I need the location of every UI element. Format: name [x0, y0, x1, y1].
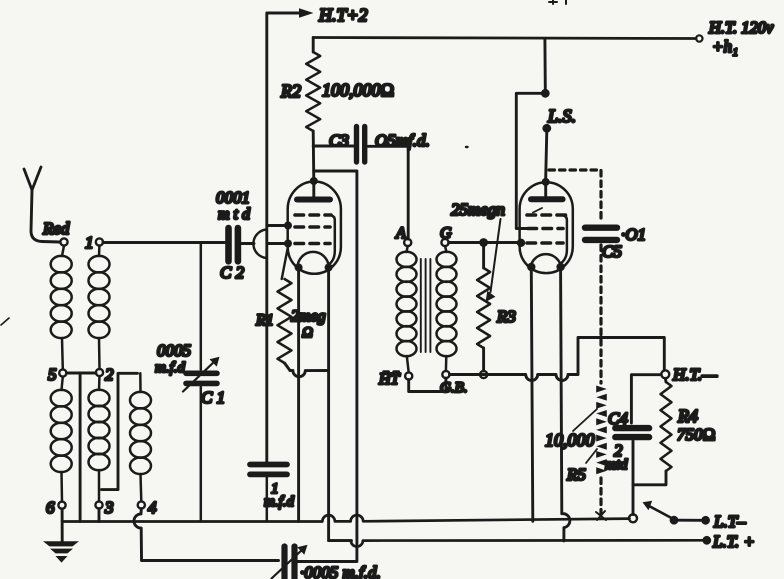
svg-text:6: 6	[46, 498, 55, 517]
V2 anode	[531, 196, 563, 202]
svg-text:H̄T̄: H̄T̄	[378, 371, 401, 388]
terminal 5	[48, 365, 66, 384]
svg-text:C5: C5	[602, 242, 622, 261]
coil L4 (2 to 3)	[89, 376, 110, 501]
wire V1 anode to reaction line (down right side)	[298, 171, 357, 562]
terminal 3	[95, 498, 113, 517]
terminal 1	[85, 233, 103, 252]
wire terminal1 to C2	[103, 241, 225, 244]
resistor R4 750 ohm	[633, 378, 716, 485]
node R3 top junction	[479, 238, 488, 247]
antenna aerial	[24, 167, 60, 242]
V1 control grid row	[295, 242, 330, 246]
ground (earth)	[43, 541, 79, 562]
svg-text:·O1: ·O1	[621, 225, 646, 244]
capacitor 1 mfd (screen bypass)	[250, 465, 295, 522]
capacitor C5 .01	[585, 225, 646, 261]
wire G to V2 grid	[449, 241, 517, 244]
wire junction 5/2 down to earth bus	[79, 373, 82, 522]
wire C2 to grid with hop over H.T+2 line	[242, 242, 255, 245]
svg-text:m.f.d: m.f.d	[155, 360, 186, 376]
svg-text:3: 3	[104, 498, 114, 517]
resistor R3 25 meg (grid leak, variable)	[451, 200, 516, 378]
svg-text:2: 2	[105, 365, 114, 384]
wire terminal5 to terminal2	[67, 372, 96, 375]
svg-text:C 2: C 2	[220, 263, 245, 282]
svg-text:Red: Red	[42, 219, 70, 238]
wire H.T+2 line to screen grid of V1	[267, 224, 284, 227]
svg-text:G: G	[440, 225, 452, 242]
resistor R2 100,000 ohm (anode load)	[280, 38, 394, 182]
wire 3 to earth bus	[98, 509, 101, 522]
node L.S. upper terminal	[541, 89, 550, 98]
svg-text:H.T.—: H.T.—	[672, 365, 718, 384]
svg-text:R5: R5	[566, 465, 586, 484]
coil L1 (aerial primary, Red to 5)	[51, 246, 72, 370]
valve V1 (detector)	[284, 177, 341, 274]
svg-text:O5mf.d.: O5mf.d.	[375, 131, 430, 150]
svg-text:L.S.: L.S.	[547, 106, 576, 126]
transformer secondary winding	[437, 246, 457, 371]
terminal G.B. (secondary bottom)	[440, 371, 468, 396]
transformer core	[421, 259, 431, 352]
resistor R1 2 meg (grid leak)	[255, 247, 326, 371]
dashed wire from L.S. lead	[549, 170, 601, 222]
svg-text:C3: C3	[329, 131, 349, 150]
svg-text:C 1: C 1	[201, 388, 225, 407]
terminal L.T.+	[702, 532, 754, 551]
svg-text:R1: R1	[255, 312, 274, 329]
V1 filament lead left to earth bus	[297, 271, 300, 522]
reaction winding feed wire (to top of L5)	[102, 373, 138, 489]
svg-text:+h₁: +h₁	[712, 37, 738, 56]
coil L3 (5 to 6)	[51, 377, 72, 502]
wire H.T.- node to C4	[631, 375, 661, 423]
wire HT to G.B. link	[409, 378, 446, 391]
svg-text:A: A	[395, 225, 406, 242]
svg-text:H.T+2: H.T+2	[318, 5, 368, 25]
capacitor C3 05 mfd (coupling)	[313, 127, 430, 240]
wire 6 to earth	[61, 509, 64, 541]
dashed wire R5 to earth bus	[599, 478, 602, 514]
filament switch	[643, 501, 702, 525]
L.T.+ BUS with dip under reaction lead	[329, 540, 703, 546]
R1 bottom wire with hop over left filament lead	[290, 371, 329, 377]
terminal HT (primary bottom)	[378, 371, 412, 388]
svg-text:R4: R4	[677, 406, 698, 426]
wire C4 bottom to switch node	[632, 441, 635, 515]
terminal 2	[96, 365, 114, 384]
wire node to V2 screen grid	[516, 93, 545, 228]
V1 anode	[297, 197, 330, 203]
svg-text:0001: 0001	[216, 188, 250, 207]
V2 control grid row	[527, 241, 563, 245]
H.T+2 feed line (screen supply)	[267, 5, 368, 462]
V2 filament lead right, hop over earth bus, to L.T.+ bus	[561, 271, 570, 541]
svg-text:Ω: Ω	[302, 325, 313, 341]
svg-text:L.T. +: L.T. +	[712, 532, 755, 551]
svg-text:R3: R3	[496, 307, 516, 326]
V1 grid row 1	[295, 213, 331, 217]
svg-text:m.f.d: m.f.d	[264, 494, 295, 510]
svg-text:m t d: m t d	[218, 206, 251, 223]
reaction capacitor -0005 mfd (variable)	[272, 545, 381, 579]
resistor R5 10,000 (dashed, variable)	[545, 386, 607, 485]
coil L5 (reaction winding, to 4)	[130, 373, 151, 501]
terminal L.T.-	[701, 512, 746, 531]
stray printing marks	[1, 318, 9, 325]
wire bus down to L.S. node	[543, 39, 546, 90]
capacitor C1 0005 m.f.d variable (tuning)	[155, 243, 225, 522]
terminal A	[395, 225, 411, 246]
terminal L.S. lower (to V2 anode)	[542, 106, 576, 178]
terminal 4	[138, 498, 157, 517]
svg-text:0005: 0005	[157, 341, 191, 360]
svg-text:750Ω: 750Ω	[677, 425, 716, 444]
svg-text:R2: R2	[280, 81, 301, 101]
coil L2 (secondary, 1 to 2)	[89, 246, 110, 369]
V2 grid row 1	[527, 213, 566, 217]
EARTH / L.T.- BUS with hops	[62, 515, 629, 521]
H.T. 120v SUPPLY BUS	[313, 18, 774, 56]
svg-text:100,000Ω: 100,000Ω	[322, 80, 394, 100]
dashed wire C5 to R5	[599, 245, 602, 383]
svg-text:5: 5	[48, 365, 57, 384]
svg-text:C4: C4	[608, 409, 628, 428]
V1 filament lead right down to L.T.+ bus	[329, 271, 352, 541]
terminal H.T.-	[661, 365, 718, 384]
G.B. line to H.T.- with hops over filament leads	[450, 338, 665, 381]
svg-text:L.T–: L.T–	[713, 512, 746, 531]
svg-text:4: 4	[148, 498, 157, 517]
V2 filament dome	[531, 254, 562, 267]
V2 screen grid row	[528, 227, 563, 231]
svg-text:H.T. 120v: H.T. 120v	[708, 18, 774, 37]
switch fixed contact	[629, 514, 637, 522]
wire 4 down, hop over earth bus, to reaction capacitor	[134, 509, 278, 561]
capacitor C2 0001 mfd (grid condenser)	[216, 188, 251, 282]
terminal 6	[46, 498, 66, 517]
capacitor C4 2 mfd	[605, 409, 649, 473]
svg-text:G.B.: G.B.	[440, 380, 468, 396]
valve V2 (output)	[517, 178, 573, 273]
svg-text:·0005 m.f.d.: ·0005 m.f.d.	[300, 563, 381, 579]
svg-text:1: 1	[85, 233, 94, 252]
transformer primary winding	[397, 246, 417, 372]
terminal Red	[42, 219, 70, 246]
svg-text:10,000: 10,000	[545, 430, 595, 450]
V1 filament dome	[298, 252, 329, 268]
V1 screen grid row	[295, 225, 330, 229]
svg-text:2meg: 2meg	[291, 308, 326, 325]
svg-text:25megn: 25megn	[451, 200, 505, 219]
V2 filament lead left to earth bus	[531, 271, 533, 521]
svg-text:mtd: mtd	[605, 457, 628, 473]
terminal G	[440, 225, 452, 246]
